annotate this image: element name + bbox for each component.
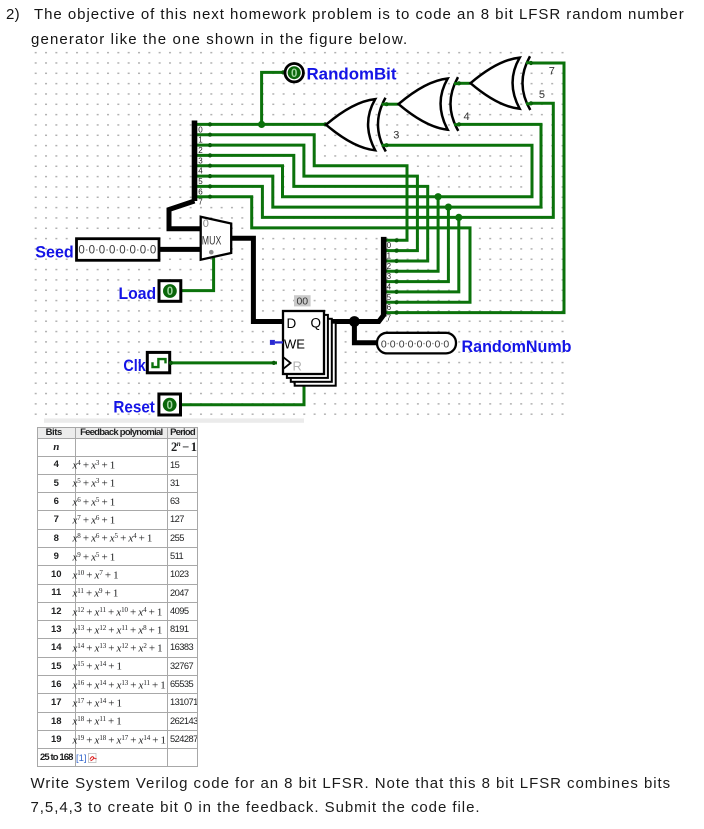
svg-text:0: 0 bbox=[390, 338, 396, 350]
svg-text:0: 0 bbox=[109, 245, 115, 257]
svg-text:00: 00 bbox=[296, 296, 308, 308]
svg-text:0: 0 bbox=[166, 400, 172, 412]
svg-text:Seed: Seed bbox=[35, 243, 73, 261]
svg-text:0: 0 bbox=[417, 338, 423, 350]
svg-text:D: D bbox=[287, 316, 297, 331]
svg-text:4: 4 bbox=[387, 283, 392, 292]
svg-text:3: 3 bbox=[387, 272, 392, 281]
svg-text:2: 2 bbox=[387, 262, 392, 271]
svg-text:Clk: Clk bbox=[123, 357, 146, 375]
svg-text:Reset: Reset bbox=[113, 399, 155, 417]
svg-text:7: 7 bbox=[198, 198, 203, 207]
svg-text:Q: Q bbox=[311, 316, 322, 331]
svg-text:1: 1 bbox=[387, 252, 392, 261]
svg-text:RandomNumb: RandomNumb bbox=[462, 338, 572, 356]
svg-text:0: 0 bbox=[119, 245, 125, 257]
svg-text:0: 0 bbox=[89, 245, 95, 257]
svg-text:0: 0 bbox=[399, 338, 405, 350]
svg-text:0: 0 bbox=[203, 218, 209, 230]
svg-text:Load: Load bbox=[119, 285, 157, 303]
svg-text:3: 3 bbox=[198, 156, 203, 165]
svg-text:3: 3 bbox=[393, 130, 399, 142]
svg-text:0: 0 bbox=[129, 245, 135, 257]
svg-text:6: 6 bbox=[387, 303, 392, 312]
svg-text:5: 5 bbox=[387, 293, 392, 302]
svg-text:2: 2 bbox=[198, 146, 203, 155]
svg-text:0: 0 bbox=[425, 338, 431, 350]
svg-text:4: 4 bbox=[464, 111, 470, 123]
svg-text:0: 0 bbox=[198, 125, 203, 134]
svg-text:RandomBit: RandomBit bbox=[307, 65, 398, 83]
svg-text:0: 0 bbox=[408, 338, 414, 350]
svg-text:0: 0 bbox=[443, 338, 449, 350]
svg-text:7: 7 bbox=[387, 314, 392, 323]
svg-text:1: 1 bbox=[198, 136, 203, 145]
svg-text:5: 5 bbox=[539, 89, 545, 101]
svg-text:0: 0 bbox=[78, 245, 84, 257]
svg-text:0: 0 bbox=[99, 245, 105, 257]
svg-text:WE: WE bbox=[284, 338, 305, 352]
svg-text:0: 0 bbox=[140, 245, 146, 257]
svg-text:0: 0 bbox=[434, 338, 440, 350]
svg-text:0: 0 bbox=[387, 241, 392, 250]
svg-text:0: 0 bbox=[150, 245, 156, 257]
svg-text:MUX: MUX bbox=[202, 234, 222, 248]
svg-text:5: 5 bbox=[198, 177, 203, 186]
svg-text:R: R bbox=[293, 359, 302, 374]
svg-text:0: 0 bbox=[167, 286, 173, 298]
svg-text:0: 0 bbox=[291, 68, 297, 80]
svg-text:0: 0 bbox=[381, 338, 387, 350]
svg-text:6: 6 bbox=[198, 187, 203, 196]
svg-text:4: 4 bbox=[198, 167, 203, 176]
svg-text:7: 7 bbox=[549, 65, 555, 77]
